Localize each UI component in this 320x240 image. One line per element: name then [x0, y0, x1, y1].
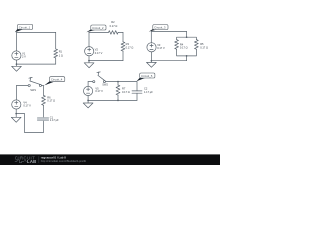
wire V5 bottom — [87, 96, 89, 101]
wire C1 bottom — [43, 121, 45, 132]
wire R6 top stub — [43, 86, 45, 96]
wire C2 bottom stub — [136, 93, 138, 100]
svg-text:SW2: SW2 — [102, 83, 108, 87]
wire V4 top stem — [16, 86, 18, 100]
svg-text:0.17 V: 0.17 V — [95, 51, 103, 55]
name label box Circuit_2 — [86, 25, 106, 32]
svg-text:LAB: LAB — [27, 159, 37, 164]
svg-text:0.17 Ω: 0.17 Ω — [126, 46, 134, 50]
wire left C3 — [150, 32, 152, 43]
resistor R2 — [109, 31, 119, 35]
wire top right C4 — [42, 85, 44, 87]
CircuitLab logo — [15, 155, 37, 164]
ground C5 — [83, 100, 93, 108]
ground C2 — [84, 61, 94, 68]
svg-text:0.17 V: 0.17 V — [95, 89, 103, 93]
wire R6-C1 — [43, 105, 45, 117]
wire left C1 — [16, 32, 18, 51]
resistor R1 — [54, 49, 58, 58]
svg-text:Circuit_4: Circuit_4 — [51, 78, 63, 82]
svg-text:ragsauce01 / Lab 8: ragsauce01 / Lab 8 — [41, 155, 66, 159]
wire right lower C2 — [122, 51, 124, 61]
wire bottom C5 — [88, 99, 137, 101]
switch SW2 — [93, 72, 106, 83]
wire top right C5 — [106, 81, 138, 83]
svg-text:R1: R1 — [59, 50, 63, 54]
wire top left C2 — [89, 31, 109, 33]
voltage source V5 — [84, 86, 93, 95]
wire bottom C1 — [17, 63, 56, 65]
voltage source V4 — [12, 100, 21, 109]
svg-text:0.17 Ω: 0.17 Ω — [110, 24, 118, 28]
wire top left C5 — [88, 81, 93, 83]
svg-text:Circuit_5: Circuit_5 — [141, 74, 153, 78]
node C junction dot — [151, 60, 153, 62]
svg-text:SW1: SW1 — [30, 88, 36, 92]
capacitor C2 — [132, 91, 142, 93]
svg-text:Circuit_3: Circuit_3 — [154, 26, 166, 30]
node G junction dot — [186, 55, 188, 57]
resistor R7 — [116, 85, 120, 95]
wire branch left top C3 — [177, 37, 187, 39]
svg-text:Circuit_2: Circuit_2 — [92, 26, 104, 30]
wire right lower C1 — [55, 58, 57, 64]
svg-text:0.17 Ω: 0.17 Ω — [180, 46, 188, 50]
wire ground link C4 — [16, 113, 24, 115]
svg-text:1 Ω: 1 Ω — [59, 53, 63, 57]
svg-text:0.17 Ω: 0.17 Ω — [200, 45, 208, 49]
wire R7 bottom stub — [117, 95, 119, 100]
junction dot R7 bottom — [117, 100, 119, 102]
svg-text:R7: R7 — [122, 86, 126, 90]
wire branch right top C3 — [187, 37, 197, 39]
svg-text:Circuit_1: Circuit_1 — [19, 25, 31, 29]
wire left C2 — [88, 32, 90, 46]
name label box Circuit_1 — [15, 24, 33, 32]
voltage source V3 — [147, 43, 156, 52]
wire right upper C1 — [55, 32, 57, 49]
wire V2 bottom — [88, 56, 90, 61]
wire bottom riser C4 — [24, 114, 26, 133]
wire V1 bottom — [16, 60, 18, 64]
wire top C3 — [151, 31, 186, 33]
node F junction dot — [186, 36, 188, 38]
svg-text:1.17 µF: 1.17 µF — [144, 90, 153, 94]
node E junction dot — [87, 100, 89, 102]
node A junction dot — [16, 63, 18, 65]
svg-text:2 V: 2 V — [22, 54, 26, 58]
svg-text:0.17 Ω: 0.17 Ω — [122, 90, 130, 94]
node D junction dot — [15, 113, 17, 115]
ground C3 — [147, 61, 157, 68]
svg-text:C2: C2 — [144, 86, 148, 90]
wire V3 bottom — [150, 52, 152, 61]
wire V4 bottom — [15, 109, 17, 114]
svg-text:http://circuitlab.com/c/f9u4dw: http://circuitlab.com/c/f9u4dwcb-pre3b — [41, 159, 87, 163]
svg-text:0.17 V: 0.17 V — [23, 104, 31, 108]
svg-text:R3: R3 — [126, 42, 130, 46]
capacitor C1 (selected/greyed) — [37, 117, 49, 121]
voltage source V2 — [85, 47, 94, 56]
wire bottom C3 — [151, 60, 186, 62]
name label box Circuit_4 — [44, 77, 64, 86]
svg-text:0.17 V: 0.17 V — [157, 46, 165, 50]
wire top right C2 — [118, 31, 123, 33]
separator — [38, 156, 40, 163]
resistor R5 — [194, 40, 198, 50]
ground C1 — [12, 64, 22, 71]
svg-text:0.17 Ω: 0.17 Ω — [47, 98, 55, 102]
svg-text:R2: R2 — [111, 20, 115, 24]
wire C2 top stub — [136, 82, 138, 91]
wire right upper C2 — [122, 32, 124, 41]
svg-text:1.17 µF: 1.17 µF — [50, 118, 59, 122]
wire riser bottom C3 — [186, 56, 188, 61]
wire bottom C2 — [89, 60, 123, 62]
resistor R3 — [121, 42, 125, 51]
wire R4 bottom stub — [177, 49, 187, 56]
wire V5 top stem — [87, 82, 89, 87]
wire bottom C4 — [25, 131, 44, 133]
wire riser top C3 — [186, 32, 188, 38]
ground C4 — [11, 114, 21, 123]
wire top left C4 — [17, 85, 29, 87]
node B junction dot — [88, 60, 90, 62]
resistor R6 — [42, 95, 46, 105]
wire top C1 — [17, 31, 56, 33]
wire R7 top stub — [117, 82, 119, 85]
name label box Circuit_3 — [149, 25, 168, 32]
wire R5 bottom stub — [187, 49, 197, 56]
name label box Circuit_5 — [137, 73, 155, 81]
junction dot R7 top — [117, 81, 119, 83]
resistor R4 — [175, 40, 179, 50]
switch SW1 — [28, 77, 41, 86]
voltage source V1 — [12, 51, 21, 60]
